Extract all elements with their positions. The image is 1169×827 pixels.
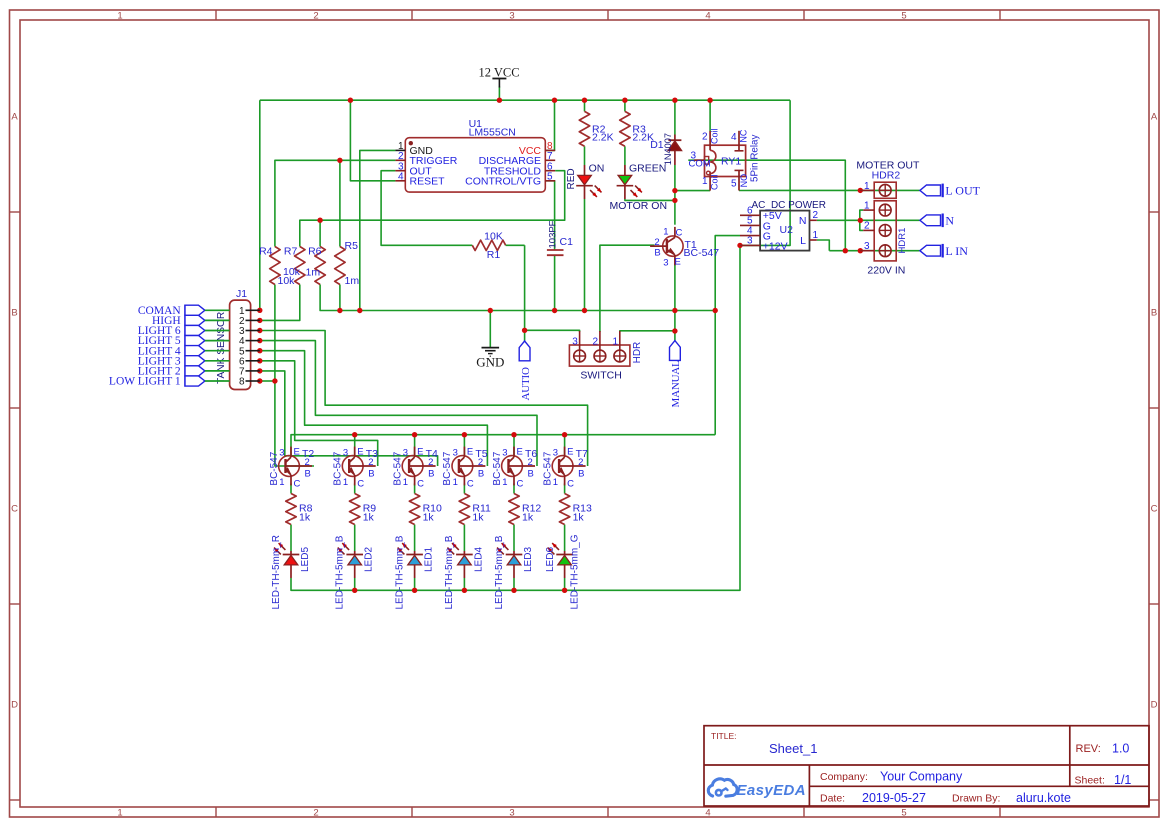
svg-text:1: 1 — [117, 11, 122, 22]
junction MOTOR ON node — [672, 198, 677, 203]
svg-text:RY1: RY1 — [721, 156, 741, 168]
header HDR1 220V IN body — [874, 201, 896, 261]
J1 pin1 stub — [246, 309, 260, 311]
svg-text:5Pin Relay: 5Pin Relay — [750, 135, 761, 182]
svg-text:1: 1 — [502, 477, 507, 488]
svg-text:C: C — [294, 479, 301, 490]
svg-text:3: 3 — [747, 236, 753, 247]
wire U1 OUT pin3 to R1 — [381, 171, 472, 246]
junction D1/relay coil node — [672, 188, 677, 193]
wire GND symbol stem — [489, 311, 491, 348]
title block — [704, 726, 1149, 806]
wire VCC rail down-right to U2 +12V pin 3 — [740, 100, 790, 245]
net flag LIGHT 6 — [138, 325, 230, 337]
SWITCH pin2 circle — [594, 350, 606, 362]
net flag L OUT — [920, 184, 981, 198]
svg-text:3: 3 — [509, 11, 514, 22]
wire T1 base to switch pin2 — [600, 245, 655, 332]
svg-text:2: 2 — [313, 808, 318, 819]
svg-text:HDR1: HDR1 — [897, 228, 908, 254]
svg-text:3: 3 — [502, 448, 507, 459]
power flag 12 VCC — [478, 66, 519, 88]
svg-text:BC-547: BC-547 — [333, 451, 344, 485]
wire net VCC top rail — [260, 99, 790, 101]
op-amp U1 LM555CN body — [405, 138, 545, 192]
svg-text:C1: C1 — [560, 236, 574, 248]
wire HDR2 pin to L OUT flag — [860, 189, 920, 191]
svg-text:B: B — [528, 469, 534, 480]
svg-text:TANK SENSOR: TANK SENSOR — [216, 312, 227, 384]
svg-text:NO: NO — [739, 174, 749, 188]
relay NC pin4 tick — [735, 150, 744, 152]
wire T3 emitter stub to rail — [354, 435, 356, 456]
LED LED5 LED-TH-5mm_R — [274, 543, 299, 578]
svg-text:HDR2: HDR2 — [872, 170, 901, 182]
resistor R7 — [295, 247, 305, 285]
svg-text:1: 1 — [553, 477, 558, 488]
net flag AUTIO — [519, 341, 532, 401]
svg-text:5: 5 — [901, 808, 906, 819]
HDR2 pin1 circle — [879, 184, 891, 196]
wire R1 right to AUTIO node and switch pin3 — [525, 245, 580, 332]
HDR1 pin stubs — [863, 209, 874, 211]
svg-text:BC-547: BC-547 — [684, 247, 720, 259]
resistor R12 1k — [509, 494, 519, 525]
svg-text:1N4007: 1N4007 — [663, 133, 673, 165]
wire J1 pin8 to R4 bottom and T2 base — [260, 380, 275, 382]
resistor R5 — [335, 247, 345, 285]
J1 pin7 stub — [246, 370, 260, 372]
wire LED1 bottom stub to rail — [414, 578, 416, 590]
resistor R11 1k — [459, 494, 469, 525]
svg-text:4: 4 — [705, 11, 710, 22]
wire VCC symbol stem — [498, 87, 500, 101]
resistor R6 — [315, 247, 325, 285]
svg-text:B: B — [478, 469, 484, 480]
svg-text:1: 1 — [117, 808, 122, 819]
svg-text:1k: 1k — [472, 511, 484, 523]
junction N node at HDR1 — [858, 218, 863, 223]
svg-text:L OUT: L OUT — [945, 184, 980, 198]
net flag LIGHT 4 — [138, 345, 230, 357]
svg-text:L IN: L IN — [945, 244, 968, 258]
wire MANUAL flag stem — [674, 331, 676, 341]
junction R6 top on TRESHOLD line — [317, 218, 322, 223]
net flag LOW LIGHT 1 — [109, 376, 230, 388]
wire J1 pin5 to T5 base — [260, 351, 488, 466]
svg-text:Sheet:: Sheet: — [1075, 775, 1105, 787]
SWITCH pin3 circle — [574, 350, 586, 362]
wire T6 emitter stub to rail — [513, 435, 515, 456]
svg-text:GREEN: GREEN — [629, 162, 666, 174]
wire J1 pin6 to T3 base — [260, 361, 378, 466]
resistor R2 — [579, 111, 589, 146]
LED LED6 LED-TH-5mm_G — [548, 543, 573, 578]
wire J1 pin1 COMAN up to VCC rail — [259, 100, 261, 310]
svg-text:E: E — [357, 447, 363, 458]
svg-text:1/1: 1/1 — [1114, 773, 1131, 787]
U2 pin stubs left — [740, 214, 760, 216]
wire T1 emitter to ground rail and MANUAL node — [674, 264, 676, 331]
wire LED GREEN bottom to MOTOR ON node — [625, 199, 675, 200]
svg-text:RESET: RESET — [410, 176, 446, 188]
net flag COMAN — [138, 305, 230, 317]
net flag LIGHT 3 — [138, 355, 230, 367]
svg-text:R5: R5 — [345, 240, 359, 252]
wire U2 G pin4 to ground rail and emitter rail — [715, 236, 740, 435]
net flag LIGHT 5 — [138, 335, 230, 347]
svg-text:2: 2 — [368, 457, 373, 468]
svg-text:3: 3 — [864, 241, 870, 252]
wire 220V L IN row to L IN flag — [829, 250, 920, 252]
svg-text:E: E — [517, 447, 523, 458]
resistor R4 — [270, 247, 280, 285]
connector J1 TANK SENSOR body — [230, 300, 251, 389]
svg-text:N: N — [945, 214, 954, 228]
wire U2 L pin1 to L IN row — [817, 240, 830, 251]
svg-text:C: C — [1151, 504, 1158, 515]
svg-text:2.2K: 2.2K — [592, 132, 614, 144]
svg-text:1k: 1k — [423, 511, 435, 523]
J1 pin2 stub — [246, 319, 260, 321]
svg-text:2: 2 — [702, 132, 708, 143]
svg-text:E: E — [567, 447, 573, 458]
svg-text:Sheet_1: Sheet_1 — [769, 741, 817, 756]
svg-text:BC-547: BC-547 — [442, 451, 453, 485]
svg-text:Company:: Company: — [820, 771, 868, 783]
svg-text:R7: R7 — [284, 246, 298, 258]
svg-text:2: 2 — [428, 457, 433, 468]
junction dots LED rail — [352, 588, 357, 593]
junction HDR2 pin1 node — [858, 188, 863, 193]
svg-text:Coil: Coil — [709, 128, 719, 144]
junction L IN row dots — [843, 248, 848, 253]
wire LED6 bottom stub to rail — [564, 578, 566, 590]
svg-text:RED: RED — [566, 168, 577, 189]
svg-text:8: 8 — [239, 377, 245, 388]
svg-text:1k: 1k — [522, 511, 534, 523]
svg-text:1m: 1m — [306, 266, 321, 278]
junction dots J1 pins — [257, 308, 262, 313]
svg-text:D1: D1 — [650, 139, 664, 151]
wire T4 emitter stub to rail — [414, 435, 416, 456]
svg-text:1: 1 — [403, 477, 408, 488]
LED LED4 LED-TH-5mm_B — [447, 543, 472, 578]
svg-text:B: B — [305, 469, 311, 480]
U2 pin stubs right — [810, 219, 817, 221]
svg-text:CONTROL/VTG: CONTROL/VTG — [465, 176, 541, 188]
transistor T4 BC-547 — [402, 447, 435, 486]
svg-text:E: E — [675, 257, 681, 268]
wire relay NO pin5 to HDR2 L OUT — [739, 189, 860, 191]
svg-text:1: 1 — [453, 477, 458, 488]
transistor T1 BC-547 — [650, 227, 683, 265]
junction dots emitter rail — [352, 432, 357, 437]
svg-text:LED-TH-5mm_B: LED-TH-5mm_B — [335, 535, 346, 609]
svg-text:1: 1 — [864, 181, 870, 192]
svg-text:AUTIO: AUTIO — [520, 367, 532, 400]
svg-text:R6: R6 — [308, 246, 322, 258]
junction R4 bottom at J1 pin8 — [272, 378, 277, 383]
svg-text:COM: COM — [689, 158, 711, 169]
net flag N — [920, 214, 955, 228]
svg-text:1k: 1k — [573, 511, 585, 523]
svg-text:1: 1 — [612, 337, 618, 348]
transistor T3 BC-547 — [342, 447, 375, 486]
module U2 AC_DC POWER body — [760, 211, 809, 251]
junction AUTIO node — [522, 328, 527, 333]
svg-text:5: 5 — [731, 179, 737, 190]
svg-text:LED4: LED4 — [473, 547, 484, 572]
wire T2 collector chain small segs — [290, 484, 292, 494]
svg-text:LED-TH-5mm_B: LED-TH-5mm_B — [444, 535, 455, 609]
LED LED2 LED-TH-5mm_B — [338, 543, 363, 578]
svg-text:7: 7 — [547, 151, 553, 162]
svg-text:LED5: LED5 — [300, 547, 311, 572]
svg-text:2: 2 — [593, 337, 599, 348]
relay NO pin5 tick — [735, 169, 744, 171]
net flag MANUAL — [670, 341, 683, 408]
relay coil arcs — [710, 150, 716, 173]
svg-text:LED-TH-5mm_R: LED-TH-5mm_R — [271, 535, 282, 609]
svg-text:LED3: LED3 — [523, 547, 534, 572]
wire R5 bottom to ground rail — [339, 285, 341, 311]
transistor T6 BC-547 — [502, 447, 535, 486]
svg-text:L: L — [800, 235, 806, 247]
svg-text:3: 3 — [572, 337, 578, 348]
svg-text:3: 3 — [279, 448, 284, 459]
svg-text:C: C — [567, 479, 574, 490]
resistor R1 — [472, 240, 505, 250]
svg-text:LED2: LED2 — [364, 547, 375, 572]
svg-text:SWITCH: SWITCH — [580, 369, 621, 381]
resistor R9 1k — [350, 494, 360, 525]
wire ground rail — [320, 285, 715, 311]
wire LED3 bottom stub to rail — [513, 578, 515, 590]
capacitor C1 103PF — [547, 250, 564, 255]
wire R2 bottom to LED RED — [584, 146, 586, 165]
svg-text:5: 5 — [901, 11, 906, 22]
wire U2 N pin2 to HDR1 pins and N flag — [817, 219, 920, 221]
wire D1 bottom to relay coil / T1 collector — [674, 165, 676, 225]
J1 left spine of net flags — [184, 305, 186, 387]
svg-text:2: 2 — [578, 457, 583, 468]
relay coil pin1 stub — [709, 172, 711, 191]
svg-text:3: 3 — [453, 448, 458, 459]
wire R4 bottom through pin8 down to T2 base — [275, 285, 314, 467]
svg-text:E: E — [294, 447, 300, 458]
frame row ticks — [10, 211, 21, 213]
svg-text:2: 2 — [478, 457, 483, 468]
wire AUTIO flag stem — [524, 330, 526, 341]
svg-text:4: 4 — [731, 132, 737, 143]
wire R3 top to VCC rail — [624, 100, 626, 111]
svg-text:MANUAL: MANUAL — [670, 360, 682, 408]
wire U1 pin8 riser to VCC rail — [546, 100, 555, 150]
J1 pin8 stub — [246, 380, 260, 382]
relay NC pin4 stub — [738, 131, 740, 151]
wire J1 pin2 to R7 bottom — [260, 285, 300, 321]
wire relay coil pin2 to VCC rail — [709, 100, 711, 131]
HDR2 pin1 stub — [860, 189, 874, 191]
LED LED1 LED-TH-5mm_B — [398, 543, 423, 578]
U1 pin stubs right — [545, 149, 555, 151]
HDR1 pin3 circle — [879, 245, 891, 257]
J1 pin5 stub — [246, 350, 260, 352]
svg-text:LM555CN: LM555CN — [469, 126, 516, 138]
resistor R8 1k — [286, 494, 296, 525]
svg-text:12 VCC: 12 VCC — [478, 66, 519, 80]
svg-text:Drawn By:: Drawn By: — [952, 793, 1000, 805]
wire T5 emitter stub to rail — [463, 435, 465, 456]
svg-text:HDR: HDR — [632, 342, 643, 364]
svg-text:REV:: REV: — [1076, 743, 1101, 755]
svg-text:C: C — [467, 479, 474, 490]
wire U1 CONTROL pin5 down to C1 — [546, 181, 555, 250]
svg-text:B: B — [11, 308, 17, 319]
svg-text:BC-547: BC-547 — [392, 451, 403, 485]
svg-text:LED-TH-5mm_G: LED-TH-5mm_G — [569, 534, 580, 609]
svg-text:A: A — [1151, 112, 1158, 123]
svg-text:U2: U2 — [780, 224, 794, 236]
U1 pin stubs left — [395, 149, 405, 151]
wire relay COM pin3 to 220V L IN row — [688, 160, 845, 251]
U1 pin1 marker dot — [409, 141, 413, 145]
wire HDR1 pin1-pin2 link — [860, 210, 863, 230]
EasyEDA logo — [708, 779, 806, 799]
wire C1 bottom to ground rail — [554, 255, 556, 310]
svg-text:R1: R1 — [487, 249, 501, 261]
svg-text:NC: NC — [739, 129, 749, 142]
svg-text:10K: 10K — [484, 231, 503, 243]
svg-text:1: 1 — [343, 477, 348, 488]
svg-text:GND: GND — [476, 355, 504, 370]
svg-text:EasyEDA: EasyEDA — [737, 782, 807, 799]
svg-text:3: 3 — [509, 808, 514, 819]
svg-text:Coil: Coil — [709, 174, 719, 190]
svg-text:B: B — [1151, 308, 1157, 319]
junction dots on ground rail — [337, 308, 342, 313]
transistor T7 BC-547 — [552, 447, 585, 486]
transistor T5 BC-547 — [452, 447, 485, 486]
svg-text:3: 3 — [403, 448, 408, 459]
SWITCH pin stubs — [579, 331, 581, 350]
svg-text:+12V: +12V — [763, 240, 788, 252]
wire J1 pin3 to T7 base — [260, 331, 588, 467]
svg-text:LED-TH-5mm_B: LED-TH-5mm_B — [494, 535, 505, 609]
svg-text:2: 2 — [305, 457, 310, 468]
svg-text:C: C — [357, 479, 364, 490]
svg-text:B: B — [654, 248, 660, 259]
svg-text:BC-547: BC-547 — [269, 451, 280, 485]
wire U1 TRESHOLD pin6 to R7/R6 tops — [300, 171, 565, 247]
svg-text:C: C — [676, 228, 683, 239]
wire U1 RESET pin4 from VCC rail — [350, 100, 395, 181]
ground symbol GND — [476, 348, 504, 370]
svg-text:2: 2 — [813, 210, 819, 221]
junction U2 +12V pin3 — [737, 243, 742, 248]
HDR1 pin1 circle — [879, 204, 891, 216]
svg-text:1k: 1k — [299, 511, 311, 523]
svg-text:LED-TH-5mm_B: LED-TH-5mm_B — [394, 535, 405, 609]
svg-text:2: 2 — [313, 11, 318, 22]
svg-text:D: D — [1151, 700, 1158, 711]
junction dots on VCC rail — [348, 98, 353, 103]
svg-text:5: 5 — [547, 171, 553, 182]
svg-text:2: 2 — [654, 237, 659, 248]
svg-text:10k: 10k — [283, 266, 301, 278]
svg-text:4: 4 — [398, 171, 404, 182]
relay RY1 5Pin Relay body — [705, 145, 746, 176]
svg-text:BC-547: BC-547 — [542, 451, 553, 485]
wire R2 top to VCC rail — [584, 100, 586, 111]
wire R3 bottom to LED GREEN — [624, 146, 626, 165]
SWITCH pin1 circle — [614, 350, 626, 362]
wire U1 TRIGGER pin2 to R4/R5 — [275, 160, 396, 246]
wire R6 top to TRESHOLD line — [319, 220, 321, 246]
LED LED3 LED-TH-5mm_B — [497, 543, 522, 578]
svg-text:1: 1 — [864, 200, 870, 211]
transistor T2 BC-547 — [279, 447, 312, 486]
LED GREEN indicator — [617, 165, 642, 199]
net flag L IN — [920, 244, 968, 258]
relay COM pin3 stub — [694, 159, 704, 161]
net flag LIGHT 2 — [138, 366, 230, 378]
header HDR2 MOTER OUT body — [874, 182, 896, 198]
svg-text:Date:: Date: — [820, 793, 845, 805]
resistor R10 1k — [409, 494, 419, 525]
J1 pin4 stub — [246, 340, 260, 342]
HDR1 pin2 circle — [879, 225, 891, 237]
svg-text:C: C — [417, 479, 424, 490]
relay COM notch — [705, 157, 709, 165]
svg-text:ON: ON — [589, 162, 605, 174]
resistor R3 — [620, 111, 630, 146]
svg-text:D: D — [11, 700, 18, 711]
svg-text:J1: J1 — [236, 288, 247, 300]
net flag HIGH — [152, 315, 230, 327]
wire T7 emitter stub to rail — [564, 435, 566, 456]
wire emitter rail of T2-T7 — [291, 435, 715, 456]
junction R5 top on TRIGGER line — [337, 158, 342, 163]
wire relay coil pin1 to D1 line — [675, 190, 710, 192]
frame column ticks — [215, 10, 217, 20]
svg-text:B: B — [428, 469, 434, 480]
svg-text:C: C — [517, 479, 524, 490]
svg-text:3: 3 — [343, 448, 348, 459]
svg-text:aluru.kote: aluru.kote — [1016, 791, 1071, 805]
wire LED4 bottom stub to rail — [463, 578, 465, 590]
wire J1 pin7 to T4 base — [260, 371, 438, 466]
svg-text:B: B — [368, 469, 374, 480]
J1 pin3 stub — [246, 330, 260, 332]
svg-text:MOTOR ON: MOTOR ON — [610, 200, 668, 212]
svg-text:1: 1 — [813, 230, 819, 241]
svg-text:2019-05-27: 2019-05-27 — [862, 791, 926, 805]
svg-text:1: 1 — [702, 176, 708, 187]
svg-text:BC-547: BC-547 — [492, 451, 503, 485]
svg-text:R4: R4 — [259, 246, 273, 258]
LED RED indicator — [576, 165, 601, 199]
svg-text:TITLE:: TITLE: — [711, 731, 737, 741]
svg-text:LED1: LED1 — [424, 547, 435, 572]
wire LED2 bottom stub to rail — [354, 578, 356, 590]
svg-text:2: 2 — [528, 457, 533, 468]
wire MANUAL node to switch pin1 — [620, 331, 675, 332]
svg-text:E: E — [417, 447, 423, 458]
svg-text:B: B — [578, 469, 584, 480]
diode D1 1N4007 — [668, 135, 681, 166]
